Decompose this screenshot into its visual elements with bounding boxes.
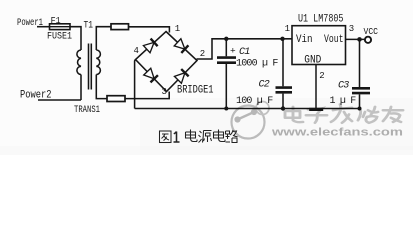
wire secondary bottom lead [96, 75, 107, 99]
pin label 1 [285, 24, 290, 34]
junction dot C2 top [280, 37, 284, 41]
transformer T1 core [89, 44, 92, 90]
svg-text:2: 2 [200, 49, 205, 59]
svg-text:C2: C2 [259, 80, 270, 91]
fuse F1 [50, 24, 71, 30]
jumper rectangle bottom [107, 96, 125, 102]
junction dot C1 bottom [224, 107, 228, 111]
label Power1 [17, 17, 43, 29]
svg-text:1: 1 [285, 24, 290, 34]
wire pin 3 to VCC [346, 38, 365, 40]
svg-text:3: 3 [162, 87, 167, 97]
caption figure number 1 [174, 132, 180, 143]
wire node 4 to ground rail [134, 60, 137, 109]
pin label 3 [349, 24, 354, 34]
value label 1000 uF [236, 59, 278, 70]
wire jumper to node 3 [125, 92, 169, 99]
caption dian (electric) second [214, 130, 226, 142]
pin label Vout [324, 34, 344, 46]
wire primary bottom lead [80, 75, 82, 101]
label C2 [259, 80, 270, 91]
diode D2 top-right (1 to 2) [174, 39, 188, 53]
VCC terminal circle [365, 37, 371, 43]
svg-text:GND: GND [304, 54, 321, 66]
svg-text:4: 4 [134, 46, 139, 56]
svg-text:www.elecfans.com: www.elecfans.com [271, 127, 404, 139]
svg-text:VCC: VCC [364, 26, 379, 37]
label U1 LM7805 [298, 13, 344, 25]
label FUSE1 [47, 31, 72, 43]
svg-text:Vin: Vin [296, 34, 313, 46]
node label 4 [134, 46, 139, 56]
pin label 2 [319, 71, 324, 81]
op-amp U1 regulator box [292, 26, 346, 65]
transformer T1 primary coil [77, 50, 81, 75]
watermark calligraphy shao [358, 107, 378, 123]
jumper rectangle top [111, 24, 129, 30]
wire fuse to transformer primary [70, 27, 81, 50]
wire node 2 to Vin rail [197, 39, 293, 59]
svg-text:BRIDGE1: BRIDGE1 [177, 85, 214, 97]
node label 3 [162, 87, 167, 97]
svg-text:FUSE1: FUSE1 [47, 31, 72, 43]
junction dot C3 bottom [358, 107, 362, 111]
caption dian (electric) [186, 130, 198, 142]
label + C1 [230, 46, 250, 59]
svg-text:1000 µ F: 1000 µ F [236, 59, 278, 70]
svg-text:U1 LM7805: U1 LM7805 [298, 13, 344, 25]
watermark calligraphy you (friend) [383, 107, 403, 122]
label BRIDGE1 [177, 85, 214, 97]
wire jumper to node 1 [129, 27, 170, 33]
pin label Vin [296, 34, 313, 46]
svg-text:Vout: Vout [324, 34, 344, 46]
junction dot C1 top [224, 37, 228, 41]
wire secondary top lead [96, 27, 111, 50]
node label 1 [175, 24, 180, 34]
wire Power1 lead [37, 26, 50, 28]
bridge BRIDGE1 diamond frame [136, 32, 198, 92]
label F1 [51, 15, 61, 26]
label TRANS1 [74, 104, 100, 116]
svg-text:TRANS1: TRANS1 [74, 104, 100, 116]
capacitor C1 [217, 39, 236, 109]
caption yuan (source) [199, 131, 212, 143]
diode D1 top-left (4 to 1) [143, 39, 157, 53]
caption figure 1 (tu) [160, 131, 172, 143]
pin label GND [304, 54, 321, 66]
transformer T1 secondary coil [96, 50, 100, 75]
svg-text:2: 2 [319, 71, 324, 81]
svg-text:T1: T1 [84, 19, 94, 31]
watermark logo circle [232, 102, 270, 139]
capacitor C2 [276, 39, 293, 109]
wire pin 2 down [315, 65, 317, 109]
watermark calligraphy zi (child) [306, 109, 327, 123]
label VCC [364, 26, 379, 37]
junction dot C2 bottom [281, 106, 285, 110]
svg-text:1: 1 [175, 24, 180, 34]
label T1 [84, 19, 94, 31]
wire Power2 [38, 99, 81, 101]
watermark calligraphy dian (electric) [285, 107, 303, 122]
svg-text:1 µ F: 1 µ F [330, 96, 357, 107]
label C3 [338, 81, 349, 92]
node label 2 [200, 49, 205, 59]
label Power2 [20, 90, 52, 102]
svg-text:C3: C3 [338, 81, 349, 92]
ground symbol at pin 2 [309, 108, 323, 111]
ground rail [135, 108, 361, 110]
svg-text:F1: F1 [51, 15, 61, 26]
caption lu (road) [226, 130, 238, 143]
diode D3 bottom-left (4 to 3) [144, 68, 158, 82]
svg-text:C1: C1 [239, 47, 250, 58]
capacitor C3 [352, 39, 370, 108]
junction dot pin3/C3 [357, 37, 362, 42]
watermark text www.elecfans.com [271, 127, 404, 139]
svg-text:3: 3 [349, 24, 354, 34]
watermark calligraphy fa [331, 104, 352, 122]
value label 100 uF [236, 96, 273, 107]
value label 1 uF [330, 96, 357, 107]
diode D4 bottom-right (3 to 2) [174, 69, 188, 83]
